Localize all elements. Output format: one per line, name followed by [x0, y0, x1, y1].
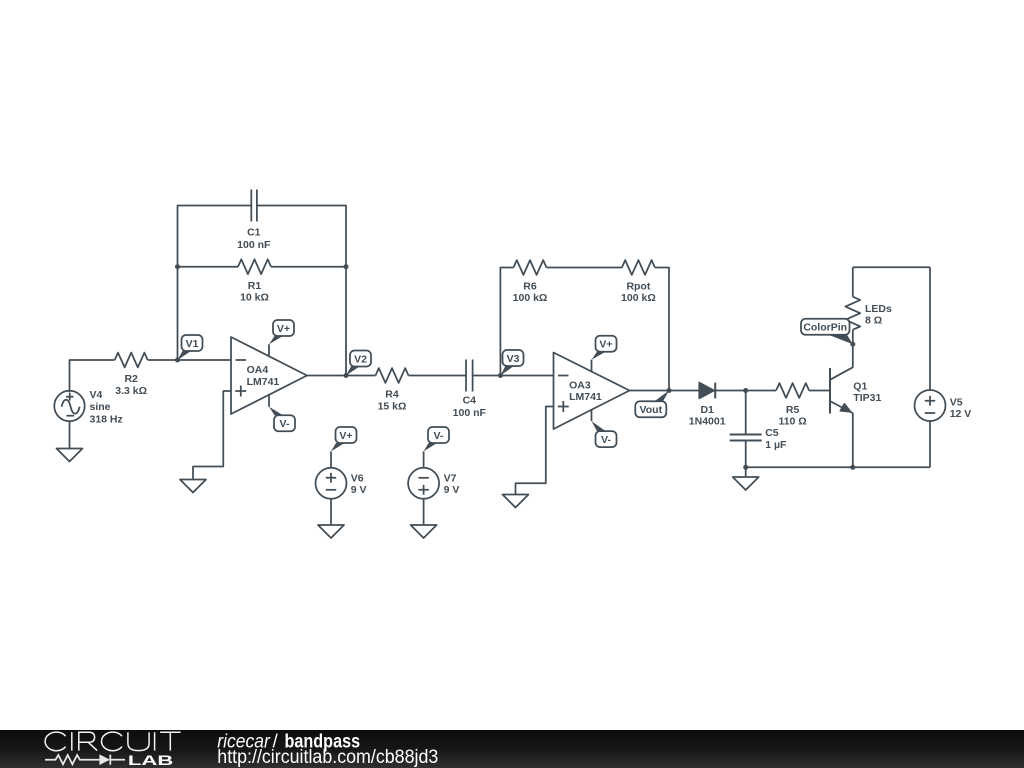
svg-text:ColorPin: ColorPin [803, 322, 847, 334]
svg-text:R5: R5 [786, 404, 800, 416]
svg-text:10 kΩ: 10 kΩ [240, 292, 269, 304]
svg-text:1N4001: 1N4001 [689, 416, 726, 428]
svg-text:Rpot: Rpot [626, 280, 650, 292]
svg-text:R6: R6 [523, 280, 537, 292]
svg-text:LEDs: LEDs [865, 303, 892, 315]
svg-text:OA4: OA4 [247, 364, 269, 376]
svg-text:100 kΩ: 100 kΩ [621, 292, 656, 304]
svg-text:V+: V+ [599, 339, 612, 351]
svg-text:V7: V7 [444, 473, 457, 485]
svg-text:100 kΩ: 100 kΩ [513, 292, 548, 304]
svg-text:V-: V- [280, 418, 290, 430]
svg-text:V6: V6 [351, 473, 364, 485]
svg-text:V+: V+ [339, 430, 352, 442]
svg-text:LAB: LAB [128, 752, 173, 768]
svg-text:LM741: LM741 [569, 391, 602, 403]
svg-text:3.3 kΩ: 3.3 kΩ [115, 385, 147, 397]
svg-text:V5: V5 [950, 397, 963, 409]
svg-text:9 V: 9 V [351, 484, 367, 496]
svg-text:8 Ω: 8 Ω [865, 315, 882, 327]
svg-text:110 Ω: 110 Ω [778, 416, 806, 428]
svg-text:R1: R1 [248, 280, 262, 292]
svg-text:100 nF: 100 nF [453, 407, 487, 419]
svg-text:1 µF: 1 µF [765, 439, 787, 451]
svg-text:V+: V+ [277, 323, 290, 335]
svg-text:V-: V- [434, 430, 444, 442]
svg-text:V-: V- [601, 434, 611, 446]
svg-text:OA3: OA3 [569, 379, 591, 391]
svg-text:V1: V1 [186, 338, 199, 350]
svg-text:R2: R2 [124, 373, 138, 385]
svg-text:12 V: 12 V [950, 408, 972, 420]
svg-text:C4: C4 [463, 395, 477, 407]
svg-text:100 nF: 100 nF [237, 239, 271, 251]
svg-text:Q1: Q1 [853, 381, 867, 393]
svg-text:V4: V4 [90, 389, 103, 401]
svg-text:C5: C5 [765, 427, 779, 439]
svg-text:http://circuitlab.com/cb88jd3: http://circuitlab.com/cb88jd3 [217, 747, 438, 768]
svg-text:V2: V2 [354, 353, 367, 365]
svg-text:9 V: 9 V [444, 484, 460, 496]
svg-text:Vout: Vout [640, 404, 663, 416]
svg-text:sine: sine [90, 401, 111, 413]
svg-text:D1: D1 [700, 404, 714, 416]
svg-text:15 kΩ: 15 kΩ [378, 400, 407, 412]
svg-text:318 Hz: 318 Hz [90, 413, 123, 425]
svg-text:V3: V3 [507, 353, 520, 365]
svg-text:TIP31: TIP31 [853, 392, 881, 404]
svg-text:R4: R4 [385, 389, 399, 401]
svg-text:LM741: LM741 [247, 376, 280, 388]
svg-text:C1: C1 [247, 227, 261, 239]
